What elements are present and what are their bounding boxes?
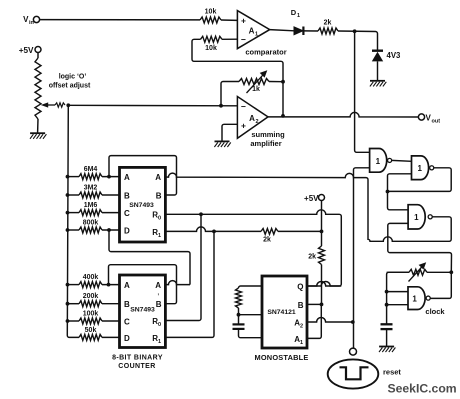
resistor 400k (68, 274, 120, 288)
svg-text:D: D (124, 227, 130, 236)
node monostable RC junction (237, 313, 241, 317)
label clock (425, 307, 445, 316)
diode D1 (291, 8, 304, 35)
terminal +5V left (19, 46, 41, 55)
svg-text:200k: 200k (83, 293, 99, 300)
wire A1 feedback loop (192, 39, 283, 116)
svg-text:1: 1 (255, 32, 258, 38)
svg-text:summing: summing (251, 130, 285, 139)
node wiper rail junction (66, 103, 70, 107)
svg-text:1: 1 (376, 157, 381, 166)
node +5V R1 junction (320, 230, 324, 234)
wire RC to chip (239, 314, 263, 316)
svg-text:B: B (298, 301, 304, 310)
svg-text:1: 1 (414, 213, 419, 222)
svg-text:A: A (155, 173, 161, 182)
counter U2 SN7493 (120, 275, 166, 348)
svg-text:A: A (155, 281, 161, 290)
ground under clock cap (379, 347, 395, 353)
svg-text:2k: 2k (308, 254, 316, 261)
wire U1 QD to U2 clock (109, 230, 190, 285)
node A2 reset junction (351, 320, 355, 324)
node clock input top (385, 290, 389, 294)
wire 2k to B pin (321, 265, 323, 305)
wire G1 output to G2 (392, 159, 412, 162)
svg-text:in: in (29, 20, 35, 26)
svg-text:1: 1 (158, 233, 161, 239)
wire U2 clock input CKA (165, 281, 190, 285)
node X junction (353, 29, 357, 33)
pot wiper arrow (41, 102, 55, 107)
svg-text:1M6: 1M6 (84, 202, 98, 209)
svg-text:0: 0 (158, 216, 161, 222)
svg-text:100k: 100k (83, 311, 99, 318)
node B junction (320, 303, 324, 307)
resistor monostable Rext (236, 286, 263, 324)
wire G4 bottom input (387, 304, 408, 306)
reset pulse symbol (328, 359, 379, 388)
svg-text:+: + (241, 121, 246, 131)
svg-text:Q: Q (297, 283, 303, 292)
svg-text:1: 1 (417, 164, 422, 173)
svg-text:out: out (432, 119, 441, 125)
svg-text:+: + (241, 16, 246, 26)
counter U1 SN7493 (120, 167, 166, 242)
svg-text:B: B (124, 300, 130, 309)
node A2 output junction (281, 114, 285, 118)
svg-text:reset: reset (383, 368, 401, 377)
monostable U3 SN74121 (262, 276, 307, 348)
svg-text:1: 1 (412, 295, 417, 304)
label logic 0 offset adjust (49, 74, 91, 90)
watermark SeekIC.com (388, 382, 457, 396)
op-amp A1 comparator (237, 11, 269, 49)
svg-text:logic ‘O’: logic ‘O’ (59, 74, 87, 81)
node ladder junction 3M2 (66, 193, 70, 197)
node ladder junction 6M4 (66, 175, 70, 179)
svg-text:2: 2 (300, 324, 303, 330)
terminal reset (350, 348, 357, 355)
node 1k right junction (281, 80, 285, 84)
svg-text:SN7493: SN7493 (130, 307, 155, 314)
wire R-10k to A1 plus input (221, 19, 237, 21)
svg-text:B: B (156, 300, 162, 309)
wire U2 R0 to U1 R0 (165, 214, 201, 320)
node U2 QA junction (107, 283, 111, 287)
nand gate G3 (408, 205, 432, 229)
resistor 200k (68, 293, 120, 307)
svg-text:4V3: 4V3 (387, 51, 402, 60)
ground under A2 (214, 141, 230, 147)
svg-text:offset adjust: offset adjust (49, 83, 91, 90)
svg-text:D: D (291, 8, 297, 17)
wire D1 to R-2k (305, 30, 319, 32)
wire R-2k to zener branch (338, 31, 378, 50)
resistor 2k top (318, 20, 338, 35)
svg-text:D: D (124, 334, 130, 343)
node clock input bottom (385, 303, 389, 307)
wire node X to gate G1 top input (355, 31, 370, 152)
svg-text:8-BIT BINARY: 8-BIT BINARY (112, 355, 163, 362)
wire U1 QA to input B loop (109, 156, 177, 195)
wire U2 QA to input B loop (109, 265, 177, 304)
svg-text:−: − (241, 102, 246, 112)
svg-text:1: 1 (300, 340, 303, 346)
zener diode 4V3 (372, 51, 401, 81)
svg-text:10k: 10k (205, 45, 217, 52)
resistor 50k (79, 327, 120, 341)
wire G1 bottom input to reset line (354, 168, 370, 348)
label 8-bit binary counter (112, 355, 163, 371)
svg-text:A: A (124, 173, 130, 182)
resistor 100k (68, 311, 120, 325)
node U1 QA junction (107, 175, 111, 179)
resistor 1M6 (68, 202, 120, 216)
label comparator (245, 48, 286, 57)
svg-text:10k: 10k (205, 9, 217, 16)
node U1 R0 junction (199, 212, 203, 216)
terminal +5V mid (304, 194, 324, 203)
svg-text:SN7493: SN7493 (129, 202, 154, 209)
svg-text:COUNTER: COUNTER (118, 363, 155, 370)
node ladder junction 400k (66, 283, 70, 287)
label monostable (254, 353, 308, 362)
svg-text:A: A (249, 114, 255, 123)
svg-text:MONOSTABLE: MONOSTABLE (254, 353, 308, 362)
potentiometer 1k feedback (239, 70, 283, 93)
svg-text:1: 1 (158, 339, 161, 345)
node ladder junction 200k (66, 302, 70, 306)
wire A2 output to Vout (268, 112, 418, 117)
svg-text:C: C (124, 209, 130, 218)
svg-text:amplifier: amplifier (250, 139, 281, 148)
node ladder junction 800k (66, 228, 70, 232)
svg-text:SeekIC.com: SeekIC.com (388, 382, 457, 396)
svg-text:2k: 2k (324, 20, 332, 27)
node U1 QD junction (107, 228, 111, 232)
svg-text:1: 1 (297, 13, 300, 19)
ground under zener (370, 81, 386, 87)
nand gate G4 clock (408, 287, 430, 310)
nand gate G1 (370, 149, 392, 173)
wire U1 R0 line (165, 210, 341, 286)
svg-text:clock: clock (425, 307, 445, 316)
svg-text:6M4: 6M4 (84, 166, 98, 173)
svg-text:C: C (124, 318, 130, 327)
wire +5V down (321, 201, 323, 247)
wire clock RC rail (387, 272, 409, 324)
svg-text:−: − (241, 34, 246, 44)
svg-text:B: B (124, 192, 130, 201)
wire monostable A2 input (307, 318, 353, 323)
wire +5V to pot (37, 53, 39, 59)
wire G4 top input (387, 291, 408, 293)
wire G2 bottom input (388, 174, 412, 192)
wire 1k feedback left leg (221, 82, 239, 106)
capacitor clock (381, 324, 393, 346)
svg-text:50k: 50k (85, 327, 97, 334)
node 1k feedback left junction (219, 104, 223, 108)
node ladder junction 100k (66, 319, 70, 323)
node latch feedback junction (386, 190, 390, 194)
svg-text:3M2: 3M2 (84, 185, 98, 192)
svg-text:A: A (249, 27, 255, 36)
node ladder junction 1M6 (66, 211, 70, 215)
resistor 2k vertical (308, 246, 324, 265)
svg-text:400k: 400k (83, 274, 99, 281)
wire U2 R1 to U1 R1 (165, 231, 214, 337)
wire A2 plus to ground (222, 124, 237, 140)
wire monostable A1 to B (307, 304, 321, 338)
wire G3 bottom input to clock (388, 223, 452, 272)
capacitor monostable Cext (233, 324, 263, 337)
svg-text:+5V: +5V (304, 194, 319, 203)
wire summing rail (68, 104, 237, 107)
potentiometer clock (387, 262, 452, 281)
terminal Vin (23, 15, 39, 26)
wire latch to G3 top input (388, 192, 409, 210)
terminal Vout (418, 114, 440, 125)
wire G2 output feedback loop (388, 168, 452, 192)
svg-text:800k: 800k (83, 220, 99, 227)
potentiometer offset adjust (35, 58, 41, 133)
svg-text:2: 2 (255, 119, 258, 125)
node clock pot junction (449, 270, 453, 274)
resistor 800k (68, 220, 120, 234)
svg-text:+5V: +5V (19, 46, 34, 55)
svg-text:B: B (156, 192, 162, 201)
ground under pot (30, 133, 46, 139)
resistor 3M2 (68, 185, 120, 199)
resistor 10k A1 feedback (201, 36, 238, 52)
wire U1 R1 line (165, 227, 321, 244)
wire Vin to R-10k (40, 19, 200, 21)
svg-text:SN74121: SN74121 (267, 309, 296, 316)
nand gate G2 (412, 156, 434, 180)
node U1 R1 junction (212, 230, 216, 234)
label summing amplifier (250, 130, 285, 148)
svg-text:2k: 2k (263, 237, 271, 244)
wire monostable Q output (307, 282, 341, 287)
label reset (383, 368, 401, 377)
resistor 6M4 (68, 166, 120, 180)
wire U1 clock input CKA (165, 173, 451, 241)
svg-text:1k: 1k (252, 86, 260, 93)
wire monostable B input (307, 303, 322, 305)
wire ladder rail (67, 105, 79, 337)
wire A1 output to D1 (270, 30, 294, 31)
wiper squiggle (55, 103, 65, 107)
wire clock feedback to G4 output (430, 272, 451, 298)
svg-text:0: 0 (158, 322, 161, 328)
svg-text:comparator: comparator (245, 48, 286, 57)
op-amp A2 summing amplifier (237, 97, 268, 139)
resistor 10k input (200, 9, 221, 24)
svg-text:A: A (124, 281, 130, 290)
